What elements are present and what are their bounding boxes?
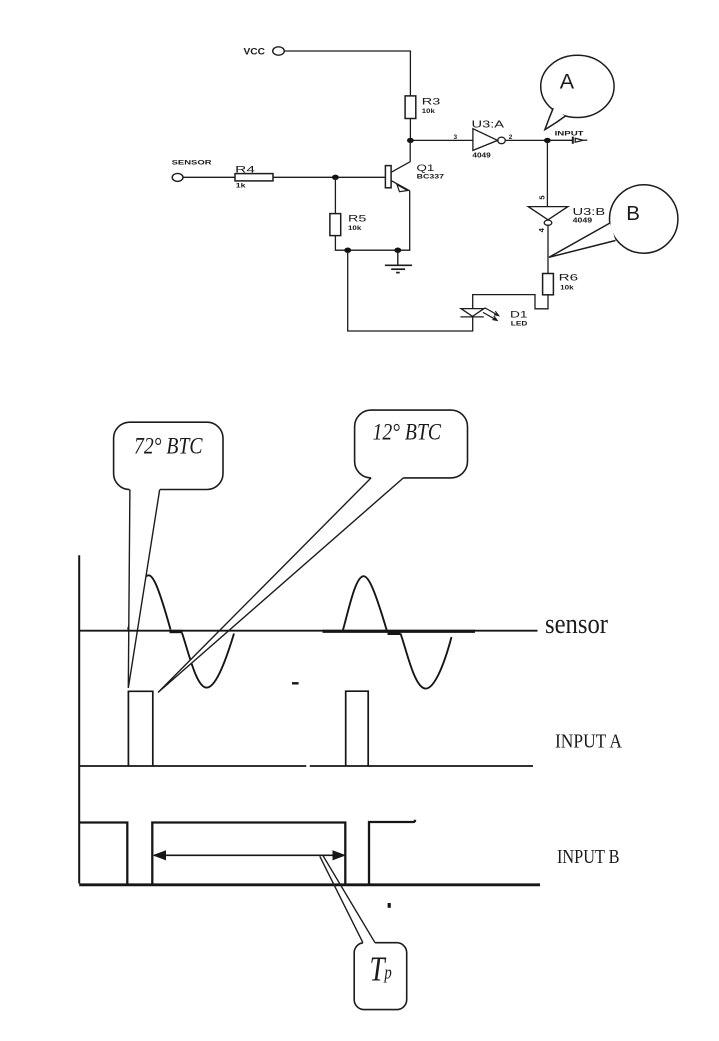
- transistor Q1: [385, 140, 410, 250]
- sensor axis bold blob: [388, 630, 401, 635]
- svg-text:INPUT B: INPUT B: [557, 846, 620, 868]
- svg-text:LED: LED: [511, 321, 528, 328]
- waveform INPUT B trace: [79, 820, 415, 884]
- wire VCC to R3: [285, 51, 411, 96]
- sensor sine cycle 2: [343, 576, 452, 688]
- waveform INPUT A pulse 1: [128, 691, 152, 766]
- callout 72 BTC tail: [128, 490, 159, 689]
- node rail ground junction: [394, 248, 401, 253]
- wire U3:A output to INPUT node: [505, 139, 547, 141]
- callout 12 BTC bubble: [355, 410, 468, 478]
- wire INPUT node to U3:B: [546, 140, 548, 206]
- node collector junction: [407, 138, 414, 143]
- net label SENSOR: [172, 160, 212, 167]
- svg-text:10k: 10k: [348, 225, 362, 232]
- resistor R3: [405, 96, 416, 119]
- node INPUT junction: [544, 138, 551, 143]
- stray dash mark: [292, 682, 299, 684]
- value 10k (R6): [560, 285, 574, 292]
- svg-text:10k: 10k: [422, 108, 435, 115]
- callout 12 BTC tail: [158, 478, 403, 693]
- balloon B letter: [626, 202, 640, 225]
- svg-text:A: A: [560, 69, 575, 93]
- balloon B: [549, 185, 678, 257]
- diode D1 LED: [460, 309, 484, 317]
- wire INPUT stub with port arrow: [547, 137, 587, 144]
- wire D1 cathode to emitter bottom rail: [348, 250, 473, 331]
- label U3:A: [472, 119, 505, 130]
- ground: [385, 250, 412, 272]
- resistor R6: [543, 274, 554, 295]
- pin 2 label: [509, 134, 513, 141]
- resistor R4: [235, 174, 273, 181]
- callout Tp bubble: [354, 943, 407, 1010]
- svg-text:72° BTC: 72° BTC: [134, 434, 203, 459]
- label R4: [235, 165, 255, 176]
- net SENSOR terminal: [172, 173, 183, 181]
- stray tick mark: [388, 903, 391, 908]
- Tp measure arrow: [154, 854, 345, 856]
- callout 72 BTC text: [134, 434, 203, 459]
- svg-text:INPUT A: INPUT A: [555, 730, 622, 752]
- waveform INPUT A baseline: [79, 765, 533, 767]
- svg-text:4049: 4049: [573, 216, 593, 225]
- op-amp U3:A inverter: [473, 129, 505, 151]
- waveform sensor zero axis: [79, 630, 537, 632]
- value 4049 (U3:A): [472, 151, 490, 160]
- value 4049 (U3:B): [573, 216, 593, 225]
- label Q1: [417, 163, 435, 174]
- svg-text:BC337: BC337: [417, 175, 445, 181]
- wire U3:B output to R6: [547, 225, 549, 273]
- svg-text:R5: R5: [348, 213, 366, 224]
- waveform INPUT A pulse 2: [346, 691, 369, 766]
- wire node to U3:A input: [410, 139, 473, 141]
- label INPUT B: [557, 846, 620, 868]
- balloon A: [541, 55, 614, 129]
- wire R5 to ground rail: [335, 236, 410, 251]
- wire R4 to Q1 base: [273, 176, 385, 178]
- svg-text:B: B: [626, 202, 640, 225]
- svg-text:R6: R6: [559, 273, 578, 284]
- LED emission arrows: [483, 308, 499, 321]
- net VCC terminal: [273, 47, 285, 55]
- sensor sine cycle 1: [128, 575, 234, 687]
- node rail left junction: [344, 248, 351, 253]
- callout Tp text: [369, 949, 391, 988]
- wire SENSOR to R4: [183, 176, 235, 178]
- value LED: [511, 321, 528, 328]
- value 10k (R5): [348, 225, 362, 232]
- op-amp U3:B inverter: [528, 207, 568, 226]
- net label VCC: [244, 46, 266, 56]
- wire R6 to D1 anode: [473, 295, 548, 309]
- callout Tp tail: [320, 855, 375, 942]
- svg-text:R4: R4: [235, 165, 255, 176]
- pin 3 label: [454, 134, 458, 141]
- svg-text:sensor: sensor: [545, 609, 609, 640]
- wire base node to R5: [334, 177, 336, 213]
- value 1k (R4): [236, 182, 246, 189]
- Tp arrow heads: [153, 850, 347, 860]
- svg-text:VCC: VCC: [244, 46, 266, 56]
- label R3: [422, 97, 441, 108]
- svg-text:4: 4: [537, 227, 546, 232]
- pin 4 label (rotated): [537, 227, 546, 232]
- svg-text:12° BTC: 12° BTC: [373, 420, 442, 445]
- value BC337: [417, 175, 445, 181]
- svg-text:D1: D1: [510, 309, 528, 320]
- svg-text:5: 5: [538, 195, 547, 199]
- resistor R5: [330, 214, 341, 236]
- pin 5 label (rotated): [538, 195, 547, 199]
- net label INPUT: [555, 131, 584, 138]
- node base junction: [332, 175, 339, 180]
- svg-text:SENSOR: SENSOR: [172, 160, 212, 167]
- waveform axis vertical: [78, 555, 80, 883]
- label sensor: [545, 609, 609, 640]
- label R6: [559, 273, 578, 284]
- svg-text:1k: 1k: [236, 182, 246, 189]
- label R5: [348, 213, 366, 224]
- sensor axis bold segment 1: [170, 630, 183, 633]
- svg-text:10k: 10k: [560, 285, 574, 292]
- value 10k (R3): [422, 108, 435, 115]
- sensor axis bold segment 2: [323, 630, 476, 633]
- label U3:B: [573, 207, 606, 218]
- svg-text:4049: 4049: [472, 151, 490, 160]
- waveform INPUT B baseline: [79, 883, 540, 886]
- svg-text:3: 3: [454, 134, 458, 141]
- svg-text:Q1: Q1: [417, 163, 435, 174]
- wire R3 to collector node: [409, 119, 411, 141]
- label D1: [510, 309, 528, 320]
- label INPUT A: [555, 730, 622, 752]
- svg-text:p: p: [383, 962, 391, 983]
- svg-text:U3:A: U3:A: [472, 119, 505, 130]
- balloon A letter: [560, 69, 575, 93]
- callout 72 BTC bubble: [114, 422, 223, 489]
- svg-text:R3: R3: [422, 97, 441, 108]
- callout 12 BTC text: [373, 420, 442, 445]
- svg-text:INPUT: INPUT: [555, 131, 584, 138]
